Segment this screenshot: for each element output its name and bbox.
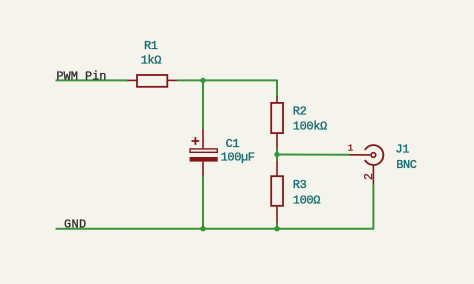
R1 reference label [144, 39, 158, 53]
resistor R3 [271, 161, 283, 223]
svg-text:1: 1 [348, 142, 354, 153]
wire junction down to C1 top pin [202, 80, 204, 129]
wire BNC pin 2 to GND bus [372, 184, 374, 230]
wire C1 bottom pin to GND bus [202, 177, 204, 229]
net label PWM Pin [56, 70, 106, 84]
svg-text:GND: GND [64, 217, 87, 231]
svg-text:C1: C1 [226, 137, 240, 151]
svg-text:100Ω: 100Ω [293, 194, 320, 208]
R1 value 1kΩ [141, 54, 162, 68]
capacitor C1 [190, 129, 218, 177]
svg-text:100kΩ: 100kΩ [293, 120, 327, 134]
BNC outer shell arc [365, 145, 383, 165]
wire R1 to corner above R2 [177, 79, 277, 81]
svg-text:R2: R2 [293, 105, 307, 119]
wire R2 bottom pin to mid junction [276, 148, 278, 155]
R3 value 100Ω [293, 194, 320, 208]
R2 reference label [293, 105, 307, 119]
R2 value 100kΩ [293, 120, 327, 134]
svg-text:R3: R3 [293, 178, 307, 192]
wire mid junction to BNC pin 1 [277, 154, 349, 156]
net label GND [64, 217, 87, 231]
wire corner down to R2 top pin [276, 80, 278, 97]
junction at R1/C1 node [200, 78, 205, 83]
J1 reference label [395, 143, 409, 157]
wire R3 bottom pin to GND bus [276, 223, 278, 229]
pin 1 line [349, 154, 370, 156]
connector J1 BNC [349, 145, 383, 184]
BNC center contact [371, 153, 376, 158]
J1 value BNC [396, 158, 417, 172]
svg-text:R1: R1 [144, 39, 158, 53]
svg-text:BNC: BNC [396, 158, 417, 172]
wire GND bus [56, 228, 374, 230]
pin 2 line [372, 165, 374, 184]
C1 reference label [226, 137, 240, 151]
svg-text:J1: J1 [395, 143, 409, 157]
R3 reference label [293, 178, 307, 192]
svg-text:100µF: 100µF [221, 150, 255, 164]
svg-text:1kΩ: 1kΩ [141, 54, 162, 68]
resistor R2 [271, 96, 283, 148]
C1 value 100µF [221, 150, 255, 164]
wire mid junction down to R3 top pin [276, 155, 278, 162]
svg-text:PWM Pin: PWM Pin [56, 70, 106, 84]
pin number 1 [348, 142, 354, 153]
pin number 2 [363, 173, 376, 180]
wire PWM Pin to R1 [56, 79, 129, 81]
junction R3/GND [274, 226, 279, 231]
junction C1/GND [200, 226, 205, 231]
svg-text:2: 2 [363, 173, 376, 180]
junction mid node R2/R3/J1 [274, 152, 279, 157]
resistor R1 [128, 75, 177, 87]
